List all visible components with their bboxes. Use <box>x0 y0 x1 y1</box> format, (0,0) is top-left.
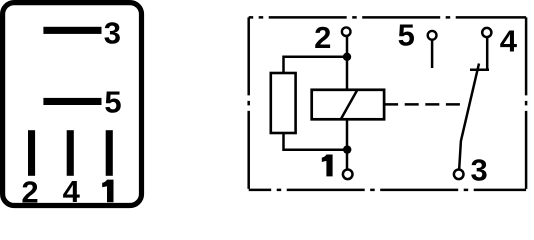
svg-text:5: 5 <box>398 18 415 53</box>
svg-text:2: 2 <box>21 174 38 209</box>
svg-text:5: 5 <box>104 85 121 120</box>
svg-text:4: 4 <box>500 24 518 59</box>
svg-text:3: 3 <box>470 152 487 187</box>
svg-text:4: 4 <box>63 174 81 209</box>
svg-text:3: 3 <box>104 16 121 51</box>
svg-text:2: 2 <box>314 20 331 55</box>
